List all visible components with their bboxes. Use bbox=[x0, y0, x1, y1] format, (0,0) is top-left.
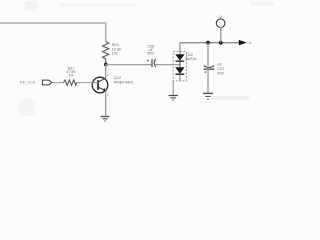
svg-text:C27: C27 bbox=[217, 67, 224, 71]
svg-text:50V: 50V bbox=[147, 52, 154, 56]
svg-text:1%: 1% bbox=[112, 51, 118, 56]
svg-text:-V: -V bbox=[248, 40, 252, 45]
svg-text:BAS31: BAS31 bbox=[185, 57, 196, 61]
svg-text:50V: 50V bbox=[217, 72, 224, 76]
svg-text:1%: 1% bbox=[68, 73, 74, 77]
svg-text:uF: uF bbox=[217, 62, 222, 66]
svg-text:-V: -V bbox=[218, 14, 222, 19]
svg-text:PMBT4401: PMBT4401 bbox=[114, 79, 135, 84]
svg-text:FS_CLK: FS_CLK bbox=[20, 81, 36, 85]
